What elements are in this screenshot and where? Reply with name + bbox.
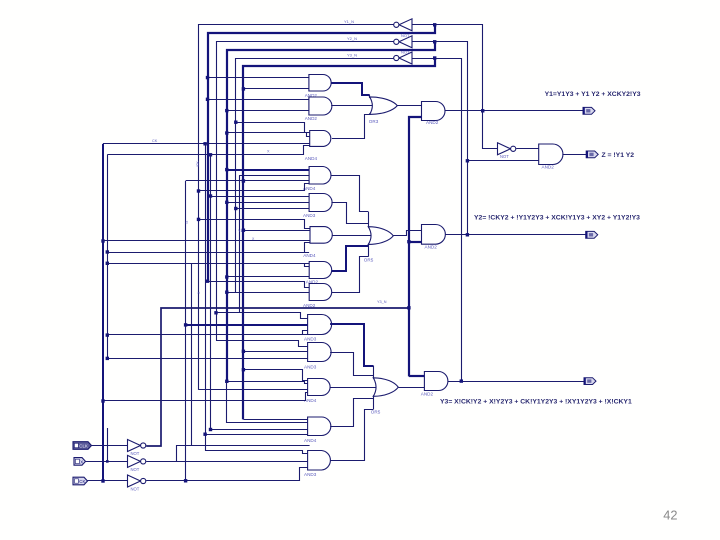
wire A9 input 2 [243,351,307,353]
svg-text:Y2_N: Y2_N [347,36,357,41]
output connector Y2 [586,231,598,238]
node t8 [242,179,245,182]
svg-text:AND2: AND2 [426,120,439,125]
wire Z output [562,154,586,156]
wire Y1 to right drop [435,25,483,111]
inverter U3 (CK) [128,475,141,487]
node t4 [225,109,228,112]
svg-text:NOT: NOT [401,33,410,38]
wire A6 input 4 [107,243,310,253]
wire A5 input 2 [227,202,309,204]
inverter U6 (Y3 to !Y3) [399,52,412,64]
svg-text:AND3: AND3 [303,213,316,218]
inverter U4 (Y1 to !Y1) [399,19,412,31]
node t19 [206,280,209,283]
svg-text:CK: CK [152,139,158,143]
AND gate A17 (Y2 clock gate) [422,225,446,245]
svg-text:AND2: AND2 [542,165,555,170]
wire A2 input 2 [227,110,309,112]
wire A9 output to OR3g [330,353,373,376]
svg-text:AND4: AND4 [304,438,317,443]
output connector Y3 [584,378,596,385]
node t31 [203,433,206,436]
wire v-bus B7 drop [239,175,241,312]
svg-text:NOT: NOT [131,467,140,472]
AND gate A15 (AND3) [308,451,331,471]
AND gate A10 (AND4) [308,379,331,396]
svg-text:AND3: AND3 [304,365,317,370]
wire !Y1 to Z AND [516,148,539,150]
node X branch [209,153,212,156]
svg-text:AND4: AND4 [305,156,318,161]
wire A7 output to OR2 (bold) [332,246,369,271]
wire A4 input 4 [199,184,310,191]
wire loop4 Y2 feedback (bold) [227,42,435,382]
svg-text:AND3: AND3 [304,472,317,477]
svg-text:AND2: AND2 [303,303,316,308]
wire CK horizontal to AND3 [103,143,310,145]
wire Y3 output net [448,381,584,383]
node X-stub tap [106,250,109,253]
wire A1 input 1 [208,77,309,79]
svg-text:AND3: AND3 [304,337,317,342]
wire A3 input 1 [236,123,310,133]
wire loop2 Y1 feedback (bold) [208,25,435,281]
wire Y2 to right drop [435,42,468,235]
node !CK junction [106,333,109,336]
node t7 [225,168,228,171]
svg-text:AND2: AND2 [421,391,434,396]
wire A10 input 2 [227,382,308,384]
node t18 [225,275,228,278]
wire A10 input 4 (CK) [103,393,308,401]
wire X branch vertical [210,155,212,430]
wire !CK tap to AND8 row [107,155,109,359]
node t25 [242,368,245,371]
wire OR2 output with jog [393,231,421,236]
wire A9 input 1 jog [216,341,308,347]
node t20 [225,291,228,294]
wire X tap feed to AND7 [107,263,309,265]
node Y2 output junction [466,233,469,236]
node Y1 output junction [481,109,484,112]
svg-text:OR5: OR5 [364,258,374,263]
wire Y1 down to Z inverter [483,111,498,149]
node clock mid junction [407,306,410,309]
wire A4 input 3 [243,180,309,182]
wire inv1 input to junction [412,24,435,26]
wire CK riser (bold) [102,144,104,481]
node t30 [209,428,212,431]
wire inv2 input to junction [412,41,435,43]
node Y2 tap for Z [466,159,469,162]
svg-text:AND2: AND2 [425,245,438,250]
node t3 [206,98,209,101]
output connector Z [586,151,598,158]
AND gate A8 (AND3) [308,315,332,335]
svg-text:AND2: AND2 [305,116,318,121]
wire clock rail riser (bold) [409,117,422,376]
node X tap [106,460,109,463]
OR gate OR2 (5-input) [368,227,393,245]
input connector CK [73,477,88,485]
node t6 [225,131,228,134]
svg-text:Z = !Y1 Y2: Z = !Y1 Y2 [602,152,635,159]
node t2 [242,87,245,90]
wire CK branch vertical [206,144,308,454]
wire A15 output to OR3g [330,410,373,461]
svg-text:Y1_N: Y1_N [344,19,354,24]
wire X lower riser segment [107,428,109,461]
svg-text:NOT: NOT [131,451,140,456]
node t22 [184,323,187,326]
svg-text:Y2= !CKY2 + !Y1Y2Y3 + XCK!Y1Y3: Y2= !CKY2 + !Y1Y2Y3 + XCK!Y1Y3 + XY2 + Y… [474,215,640,222]
wire A2 output [331,105,373,107]
node t23 [242,350,245,353]
node t1 [206,76,209,79]
wire CK tap down feed to AND6 [103,240,310,242]
wire OR3g output [398,387,424,389]
AND gate A2 [309,97,332,115]
svg-text:Y3= X!CK!Y2 + X!Y2Y3 + CK!Y1Y2: Y3= X!CK!Y2 + X!Y2Y3 + CK!Y1Y2Y3 + !XY1Y… [440,399,632,406]
wire A6 input 3 [103,240,310,242]
AND gate A8b [309,284,332,301]
wire clock tap to A17 (bold) [409,241,422,243]
AND gate A9 (AND3) [308,343,331,362]
node clock tap [407,240,410,243]
node t21 [214,311,217,314]
svg-text:CK: CK [79,479,85,484]
svg-text:42: 42 [663,508,677,523]
node Y3 top junction [433,56,436,59]
inverter U1 (CLK) [128,440,141,452]
wire A4 input 1 (bold Y2) [227,169,309,171]
wire A8b input 1 [208,282,310,288]
node t9 [197,189,200,192]
wire A5 input 1 [211,196,310,198]
wire A1 input 2 [243,88,309,90]
wire A6 input 1 [199,220,311,229]
wire A10 input 3 [199,389,308,391]
wire clock rail bottom corner (bold) [409,375,425,377]
node t12 [234,207,237,210]
wire loop6 Y3 feedback (bold) [243,58,435,419]
node Y2 top junction [433,40,436,43]
svg-text:NOT: NOT [401,49,410,54]
node t14 [242,229,245,232]
node CK-A6 tap [101,239,104,242]
wire A5 input 3 [236,208,309,210]
wire X tap feed stub [107,252,309,254]
node t11 [225,201,228,204]
wire A11 output to OR3g [330,399,373,427]
wire A3 output to OR1 [332,115,370,139]
svg-text:Y3_N: Y3_N [347,52,357,57]
wire loop3 !Y2 feedback [217,42,395,341]
node CK branch [203,142,206,145]
AND gate A19 (Y3 clock gate) [424,372,448,391]
AND gate A16 (Y1 clock gate) [422,102,446,121]
wire A9 input 3 [107,358,307,360]
inverter U2 (X) [128,455,141,467]
AND gate A18 (Z) [539,144,563,165]
node t28 [101,399,104,402]
wire !CK long feed to AND8 [107,334,307,336]
node t5 [234,121,237,124]
svg-text:Y1=Y1Y3 + Y1 Y2 + XCKY2!Y3: Y1=Y1Y3 + Y1 Y2 + XCKY2!Y3 [545,91,641,98]
svg-text:X: X [80,459,83,464]
wire X riser top corner [107,154,210,156]
OR gate OR1 (3-input) [370,97,398,115]
wire A6 output [332,235,372,237]
wire A11 input 3 [211,429,308,431]
AND gate A5 (AND3) [309,194,332,212]
inverter U7 (!Y1 for Z) [498,143,511,155]
node t10 [209,194,212,197]
wire Y2 tap to Z AND [467,160,538,162]
wire loop5 !Y3 feedback [236,59,395,293]
svg-text:NOT: NOT [131,487,140,492]
wire Y3 bus drop [185,181,187,481]
wire A11 input 4 [205,434,308,436]
input connector CLK [73,442,92,450]
wire A8 input 2 (bold) [186,324,308,326]
wire A5 output to OR2 [331,203,368,224]
wire A10 output [330,387,377,389]
node CK tap [101,479,104,482]
wire !CK run and rise to AND15 [146,468,307,481]
wire A4 input 2 [239,175,309,177]
wire X horizontal to AND3 [211,146,310,155]
svg-text:NOT: NOT [500,154,509,159]
wire A10 input 1 [243,370,307,381]
node Y1 top junction [433,23,436,26]
AND gate A11 (AND4) [308,417,331,436]
AND gate A6 (AND4) [310,227,332,244]
inverter U5 (Y2 to !Y2) [399,36,412,48]
wire OR1 output [397,105,421,107]
svg-text:OR3: OR3 [369,119,379,124]
node X-A7 tap [106,262,109,265]
AND gate A4 (AND4) [309,167,331,185]
OR gate OR3g (5-input) [373,378,398,397]
svg-text:Y3_N: Y3_N [377,300,387,304]
svg-text:Y1: Y1 [238,229,242,233]
wire vertical branch x191.5 [191,263,193,445]
wire A2 input 1 [208,99,309,101]
wire X to inverter [86,461,128,463]
node t13 [197,218,200,221]
wire A8b input 2 [227,292,309,294]
wire !CLK up to clock rail [146,308,409,446]
wire A7 input 2 [227,276,309,278]
wire CLK to inverter [92,445,128,447]
svg-text:AND4: AND4 [303,253,316,258]
wire bus elbow top to AND4 [186,180,310,182]
wire A11 input 1 [243,419,307,421]
svg-text:!CK: !CK [196,161,200,168]
input connector X [74,458,86,466]
wire CK to inverter [88,480,128,482]
wire A8 input 1 [216,313,308,319]
wire Y2 output net [445,234,586,236]
node t24 [106,357,109,360]
wire A8 input 3 jog [303,331,308,335]
wire Y1 output net [445,110,583,112]
svg-text:OR5: OR5 [371,409,381,414]
wire !X long run to AND15 [146,461,307,463]
node t26 [225,380,228,383]
wire !X jog branch stub [177,446,310,462]
svg-text:CLK: CLK [79,444,88,449]
wire A8 output to OR3g (bold) [330,324,373,366]
wire A1 output to OR1 (bold) [331,83,369,95]
output connector Y1 [583,107,595,114]
wire Y3 to right drop [435,59,462,382]
AND gate A3 (AND4) [310,131,331,147]
wire A8b output to OR2 [332,257,369,293]
wire A6 input 2 [243,230,310,232]
wire A11 input 2 (v226.8 thin tail) [227,381,308,422]
wire A4 output to OR2 [331,176,368,212]
AND gate A1 [309,75,331,92]
wire loop1 !Y1 feedback [199,25,395,390]
wire A3 input 2 [227,133,310,137]
node bus join [184,479,187,482]
wire inv3 input to junction [412,58,435,60]
AND gate A7 [309,262,332,279]
wire A7 input 1 [107,264,309,267]
node Y3 output junction [460,379,463,382]
